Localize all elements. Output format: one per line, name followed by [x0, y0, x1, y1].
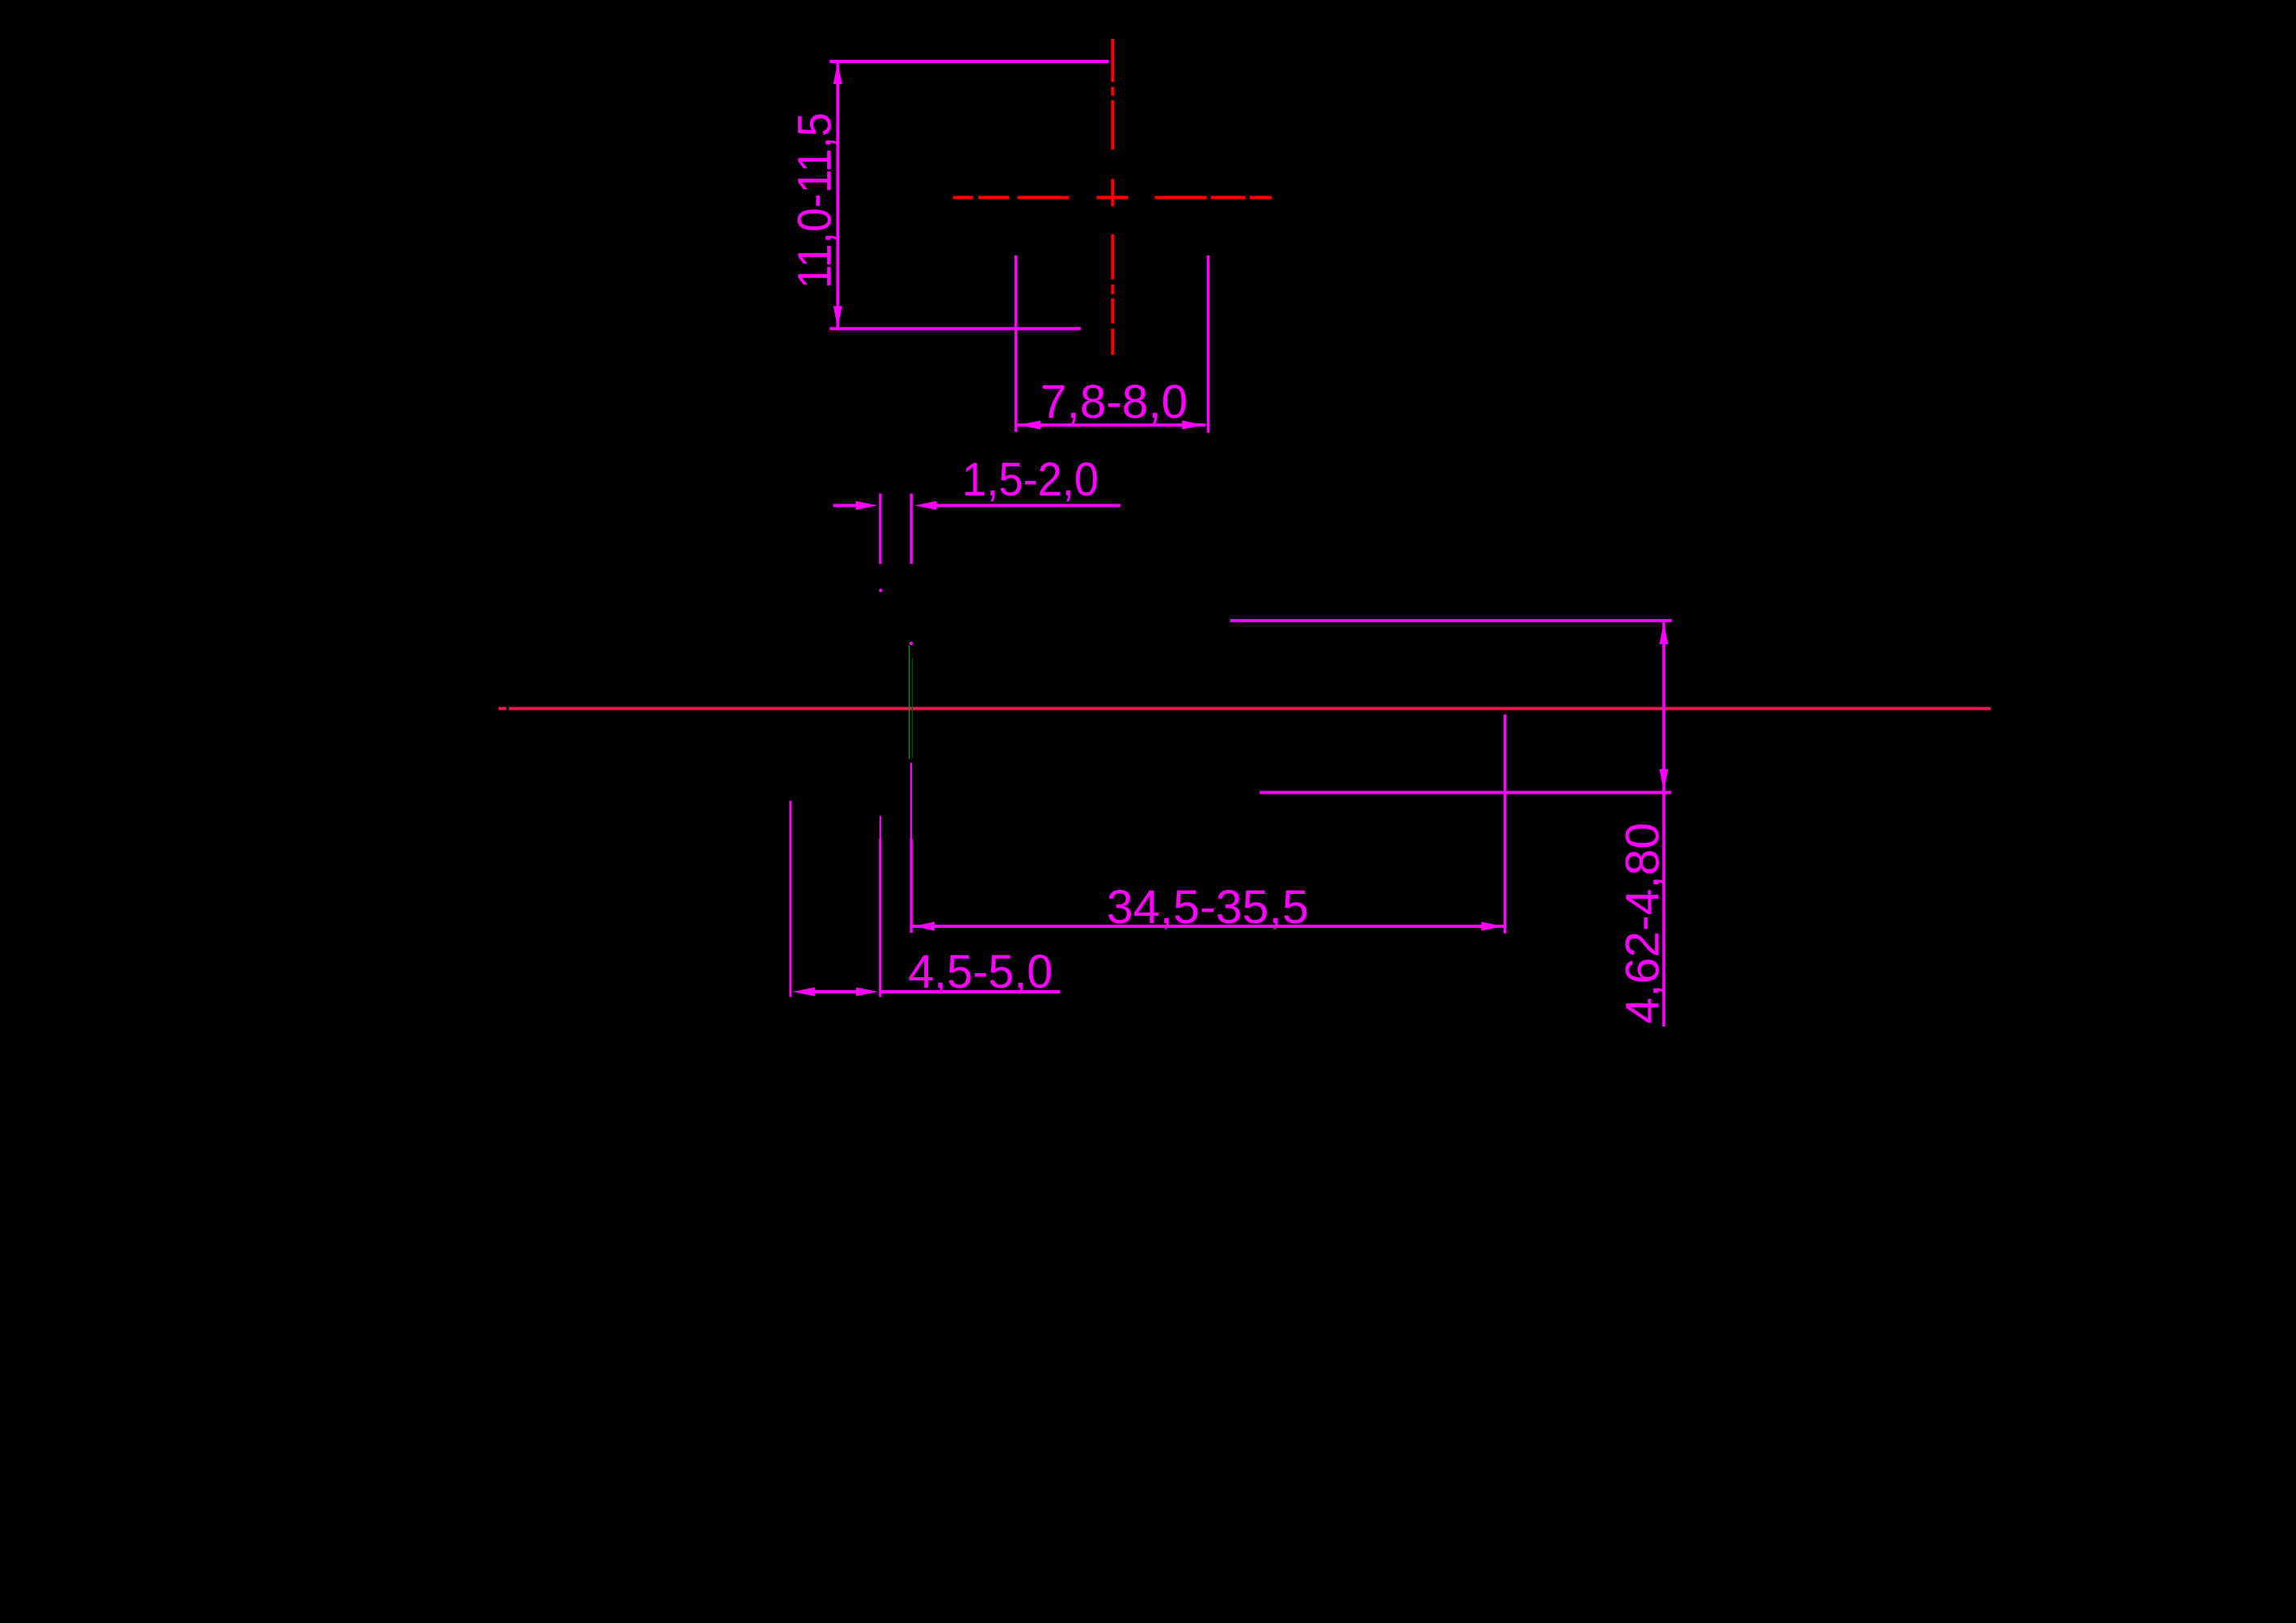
extension line right of 4.5-5.0 (upper thin part): [880, 816, 881, 839]
dimension line 1.5-2.0 left segment with arrow: [834, 501, 878, 510]
dimension line 1.5-2.0 right segment with arrow: [915, 501, 1121, 510]
detail view: bottom edge extension line: [829, 327, 1081, 331]
red vertical centerline (dash-dot): [1111, 39, 1114, 355]
extension line left of 1.5-2.0: [879, 494, 881, 564]
dimension line 34.5-35.5 with arrows: [911, 922, 1505, 931]
svg-text:7,8-8,0: 7,8-8,0: [1040, 376, 1188, 428]
extension line left of 7.8-8.0: [1015, 255, 1018, 432]
extension line top of 4.62-4.80: [1230, 619, 1672, 622]
dimension line 4.62-4.80 vertical with arrows: [1660, 620, 1669, 1026]
dimension line 4.5-5.0 with arrows: [792, 988, 1060, 997]
green edge line dark: [912, 658, 913, 758]
extension line left of 34.5-35.5 (upper thin part): [910, 763, 912, 839]
extension line left of 4.5-5.0: [789, 801, 791, 997]
detail view: top edge extension line: [829, 60, 1108, 63]
extension line bottom of 4.62-4.80: [1260, 791, 1671, 795]
long red section line: [499, 707, 1991, 710]
extension line right of 7.8-8.0: [1207, 255, 1210, 432]
extension line right of 1.5-2.0: [910, 494, 913, 564]
svg-text:4,62-4,80: 4,62-4,80: [1617, 823, 1669, 1024]
point marker right: [910, 642, 913, 645]
extension line right of 4.5-5.0 (lower part): [879, 839, 881, 997]
extension line right of 34.5-35.5: [1504, 715, 1507, 934]
svg-text:11,0-11,5: 11,0-11,5: [789, 112, 842, 289]
svg-text:1,5-2,0: 1,5-2,0: [962, 453, 1099, 506]
dimension line 7.8-8.0 with arrows: [1017, 420, 1205, 429]
green edge line bright: [909, 645, 910, 758]
point marker left: [879, 588, 882, 592]
extension line left of 34.5-35.5 (lower part): [910, 839, 913, 933]
red horizontal centerline (dash-dot): [953, 196, 1273, 199]
dimension line 11.0-11.5 vertical: [834, 61, 842, 329]
